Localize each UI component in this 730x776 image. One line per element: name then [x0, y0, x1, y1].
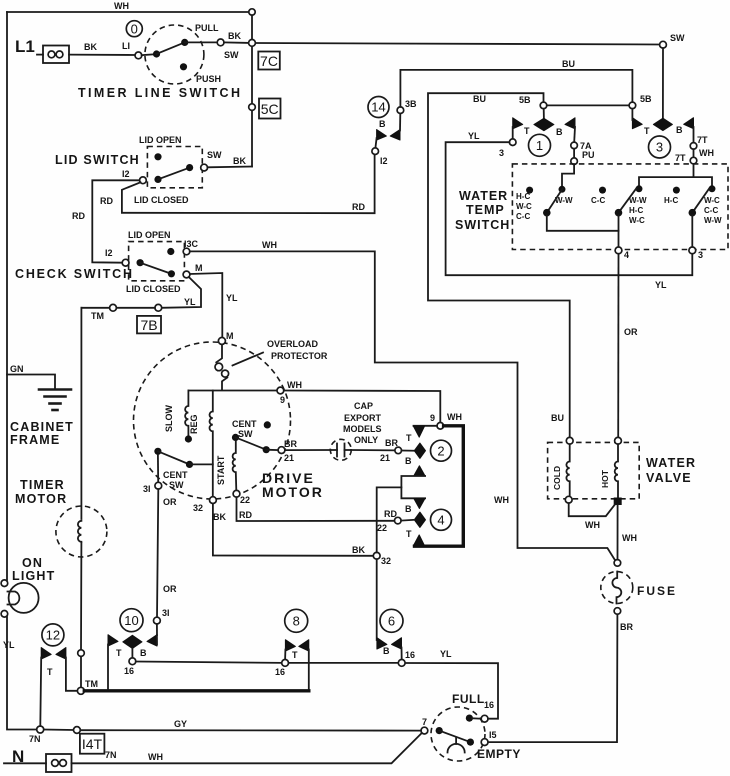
water level lever [436, 727, 443, 734]
node SW lid switch [201, 164, 208, 171]
wire left border below ON LIGHT down to bottom corner then right to 7N [7, 617, 37, 730]
centrifugal switch lower [154, 448, 161, 455]
node COLD bottom [565, 496, 572, 503]
timer contact number 0 [126, 21, 142, 37]
contact dot full [466, 715, 473, 722]
label box 7C [258, 52, 280, 70]
wire pivot A to terminal 4 line [547, 216, 619, 231]
svg-text:OR: OR [163, 584, 177, 594]
terminal HOT bottom (solid square) [614, 498, 622, 506]
node I2 lid switch [140, 177, 147, 184]
svg-text:12: 12 [46, 628, 60, 643]
wire BR from fuse down to water level switch 15 [488, 614, 617, 742]
wire BU from 5B of contact 1 up-left then down to water valve COLD [428, 93, 570, 437]
wire BK from L1 block to timer line switch [69, 54, 135, 56]
node 7T lower [693, 149, 695, 157]
timer contact 6 [380, 609, 403, 632]
wire motor top header [188, 390, 277, 392]
contact 1 T flag and pole to node 3 [513, 118, 523, 129]
contact 8 right pole to bus [308, 650, 310, 690]
node 21 motor BR [278, 447, 285, 454]
wire BK from node 32 down to contact 6 [376, 559, 378, 640]
wire PU entry into water temp switch [562, 165, 574, 188]
node 7 water level [421, 727, 428, 734]
node COLD top [566, 437, 573, 444]
water temp switch A lever and pivot [547, 189, 563, 213]
wire OR from motor 31 down to contact 10 [157, 489, 158, 617]
contact 6 flags [377, 638, 387, 649]
contact 12 flags [41, 648, 51, 660]
contact 12 right pole to bus [66, 658, 78, 691]
contact 2 top flag [414, 425, 438, 427]
water temp switch B lever and pivot [636, 185, 643, 192]
node TM bus junction [77, 687, 84, 694]
contact 10 diamond and stem to 16 [123, 635, 142, 648]
water temp switch C lever and pivot [709, 185, 716, 192]
node 13C [183, 248, 190, 255]
node 16 full [481, 715, 488, 722]
svg-text:B: B [140, 648, 147, 658]
wire left border (neutral side) from top corner down to ON LIGHT [6, 12, 8, 580]
contact 8 left pole to node 16 [284, 650, 286, 660]
contact 4 diamond [414, 512, 425, 527]
node 5C terminal [249, 104, 256, 111]
node I2 contact 14 [372, 148, 379, 155]
contact 14 circle [368, 97, 389, 118]
node HOT top [615, 437, 622, 444]
overload protector [216, 344, 222, 362]
wire RD from lid switch I2 left-down to check switch I2 [92, 180, 139, 262]
label box 14T [80, 734, 105, 754]
water level switch dashed circle [431, 707, 485, 761]
node 21 BR at contact 2 [395, 447, 402, 454]
wire 16 link to contact 6 [289, 662, 399, 664]
wire SW long horizontal to contact 3 [255, 43, 659, 45]
timer line switch (dashed circle) [145, 25, 204, 84]
wire BK from 32 to node 32 right [213, 504, 373, 556]
wire 7T entry and tie inside water temp switch [639, 164, 694, 187]
node M motor [218, 337, 225, 344]
contact 3 T flag [632, 118, 642, 129]
node TM terminals [155, 304, 162, 311]
wire BU from 3B up and right to 5B of contact 3 [400, 70, 632, 107]
svg-text:16: 16 [124, 666, 134, 676]
node 7N [37, 726, 44, 733]
wire TM horizontal to timer motor drop [116, 307, 154, 309]
timer contact 1 [529, 134, 551, 156]
check switch (dashed box) [129, 242, 185, 281]
wire WH from COLD bottom to HOT terminal [569, 503, 615, 516]
node 9 WH motor [277, 387, 284, 394]
wire SW vertical down to contact 3 diamond [662, 48, 664, 118]
timer motor (dashed circle with coil) [56, 506, 107, 557]
water valve dashed box [548, 442, 640, 498]
svg-text:6: 6 [388, 614, 395, 629]
wire timer motor line from TM down to bus [80, 308, 82, 519]
wire YL from contact 6 node 16 down to water level 16 [405, 663, 498, 719]
timer contact 8 [285, 609, 308, 632]
timer contact 12 [42, 624, 64, 646]
node 7T [690, 143, 697, 150]
wire GY bus from 7N to node 7 [44, 729, 74, 732]
fuse [614, 560, 621, 567]
svg-text:TM: TM [85, 679, 98, 689]
wire B tie to BK 32 line [377, 487, 402, 552]
contact 13C dot [167, 248, 174, 255]
timer contact 2 [431, 440, 452, 461]
timer contact 14 flags [377, 130, 387, 141]
contact 1 diamond [543, 109, 545, 119]
contact 2 diamond [402, 450, 415, 452]
wire WH top border from L1 corner to vertical drop [7, 11, 252, 13]
timer contact block bold bracket [415, 426, 464, 546]
svg-text:B: B [383, 646, 390, 656]
wire BK/SW from timer line switch to junction at 7C line [224, 41, 249, 44]
drive motor dashed circle [134, 342, 291, 499]
lid switch (dashed box) [147, 147, 202, 188]
lid switch lever [154, 176, 161, 183]
node 22 motor [233, 490, 240, 497]
contact 12 left pole down to 7N [39, 658, 42, 727]
node 5B contact 1 [540, 102, 547, 109]
pressure dome [448, 744, 465, 753]
node 22 RD at contact 4 [395, 517, 402, 524]
node 31 lower [154, 617, 161, 624]
contact 2/4 B tie bracket [414, 466, 425, 476]
svg-text:16: 16 [275, 667, 285, 677]
node PU [573, 149, 575, 158]
water temp switch dashed box [512, 164, 728, 250]
svg-text:T: T [292, 650, 298, 660]
wire YL from contact1 node 3 down and across to node 3 of temp switch [446, 142, 693, 275]
node top corner circle [249, 9, 255, 15]
wire YL from M down-left to timer motor line [162, 277, 202, 308]
wire pivot C down to node 3 [691, 216, 693, 248]
label box 7B [137, 316, 161, 334]
node M check switch [183, 271, 190, 278]
contact 10 left flag and pole [108, 635, 118, 646]
contact 6 right pole to node 16 [401, 648, 403, 660]
node TM mid [78, 650, 85, 657]
node 3 [509, 139, 516, 146]
svg-text:T: T [47, 667, 53, 677]
node 32 motor [210, 497, 217, 504]
check switch lever [137, 259, 144, 266]
wire WH from 13C right to drop [190, 251, 616, 560]
timer contact 10 [120, 609, 143, 632]
water temp switch C isolated dot H-C [673, 187, 680, 194]
node 7A [571, 142, 578, 149]
wire WH from motor header to node 9 at contact 2 [284, 391, 441, 423]
bus bottom bold [84, 689, 308, 692]
wire vertical 7C/5C drop [251, 15, 253, 39]
contact 10 right flag and pole to 31 [147, 635, 157, 646]
svg-text:10: 10 [124, 613, 138, 628]
svg-text:8: 8 [293, 614, 300, 629]
wire RD from 22 to contact 4 [237, 497, 395, 521]
node 15 empty [481, 739, 488, 746]
contact 4 bottom flag [413, 535, 424, 546]
contact lid-open dot [154, 153, 161, 160]
svg-text:3I: 3I [162, 608, 170, 618]
water temp switch A contact dots [526, 187, 533, 194]
wire RD from lid switch I2 down-right to contact 14 [122, 154, 375, 213]
node 3B [397, 107, 404, 114]
contact 8 flags [285, 640, 295, 651]
svg-text:16: 16 [405, 650, 415, 660]
wire pivot B down to node 4 [618, 216, 620, 248]
node 9 WH contact block [437, 423, 444, 430]
timer contact 4 [431, 509, 452, 530]
wire WH bottom from N block to water level node 7 [72, 733, 422, 763]
wire 16 link line [136, 662, 282, 663]
water temp switch B isolated dot C-C [599, 187, 606, 194]
wire OR from node 4 down to water valve HOT [617, 254, 619, 438]
svg-text:T: T [116, 648, 122, 658]
wire YL from M right then down to drive motor M [190, 273, 222, 338]
node 5B contact 3 [629, 102, 636, 109]
contact 1 B flag and pole to node 7A [565, 118, 575, 129]
node 31 motor [157, 455, 159, 482]
centrifugal switch upper [232, 434, 239, 441]
node SW junction [249, 40, 256, 47]
wire 5B link between contact 1 and contact 3 [547, 104, 629, 106]
contact 3 diamond [653, 118, 672, 130]
wire BK from lid switch SW up to 5C line [208, 166, 253, 169]
timer contact 3 [649, 136, 671, 158]
node I2 check switch [122, 259, 129, 266]
label box 5C [259, 99, 281, 119]
contact 3 B flag and pole to node 7T [684, 118, 694, 129]
wire WH from HOT terminal down to fuse [617, 505, 619, 560]
